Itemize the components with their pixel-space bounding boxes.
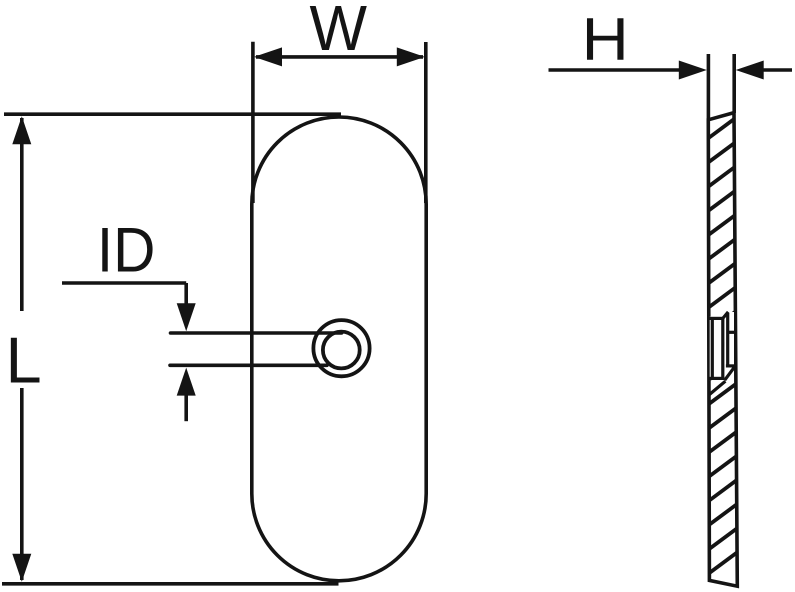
L top arrowhead [12,116,31,144]
wire: H dimension left lead line [549,68,684,72]
wire: L bottom extension line [2,582,339,586]
wire: W left extension line [251,42,255,203]
white mask over hole region in side view [710,312,734,381]
hole inner circle [323,332,360,369]
recess right wall [721,318,724,378]
hole outer circle [313,320,369,376]
through-hole left wall [726,313,729,365]
front view: stadium-shaped part outline [252,117,426,581]
chamfer top diagonal [723,312,728,319]
wire: ID leader horizontal [62,281,186,285]
svg-text:L: L [6,324,42,397]
wire: H left extension line [707,54,711,124]
side view hole feature lines [709,312,736,395]
wire: W dimension line [256,55,423,59]
chamfer bottom diagonal [725,366,735,380]
recess bottom edge [709,377,725,380]
wire: L dimension line lower segment [20,388,24,580]
svg-text:W: W [310,0,368,64]
side view: part outline (thin slanted strip) [704,113,740,587]
wire: W right extension line [424,42,428,203]
H right arrowhead (points left) [736,61,764,80]
svg-text:ID: ID [97,216,155,286]
hatch stub below hole [709,381,725,395]
svg-text:H: H [582,6,629,73]
ID down arrowhead [177,303,196,331]
wire: slot lower line [170,363,327,367]
wire: L top extension line [4,112,341,116]
wire: slot upper line [171,331,342,335]
H left arrowhead (points right) [679,61,707,80]
wire: ID leader vertical drop [184,283,188,306]
wire: H dimension right lead line [760,68,792,72]
recess top edge [709,317,723,320]
W right arrowhead [397,47,425,66]
recess left wall [711,318,714,378]
L bottom arrowhead [12,554,31,582]
through-hole top divider [728,331,735,334]
through-hole bottom edge [726,364,735,367]
wire: L dimension line upper segment [20,118,24,311]
wire: ID up-arrow stem [184,394,188,421]
W left arrowhead [254,47,282,66]
wire: H right extension line [732,54,736,113]
ID up arrowhead [177,368,196,396]
